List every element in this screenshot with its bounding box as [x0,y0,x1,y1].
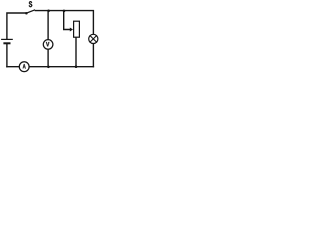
wire left lower segment below battery [6,44,8,66]
wire rheostat bottom stub [75,37,77,66]
battery B1 long plate [2,38,13,40]
node junction dot bottom left [47,66,50,69]
switch S pivot [25,12,28,15]
node junction dot bottom right [75,65,78,68]
node junction dot top right [63,10,66,13]
label S [29,1,32,7]
label V [46,42,49,46]
wire voltmeter branch [47,11,49,67]
wire top-left segment to switch pivot [7,13,25,39]
wire bottom segment [7,66,94,68]
lamp L [89,34,98,43]
rheostat R resistor body [74,21,80,37]
wire top segment right of switch and right-side drop [35,11,93,67]
voltmeter V [43,40,53,50]
lamp cross [90,36,97,43]
rheostat R slider arrow head [70,28,73,32]
switch S blade [28,10,35,13]
label A [23,64,26,68]
ammeter A [19,62,29,72]
battery B1 short thick plate [4,42,9,44]
node junction dot top left [47,10,50,13]
wire rheostat branch with slider shaft [64,11,70,30]
